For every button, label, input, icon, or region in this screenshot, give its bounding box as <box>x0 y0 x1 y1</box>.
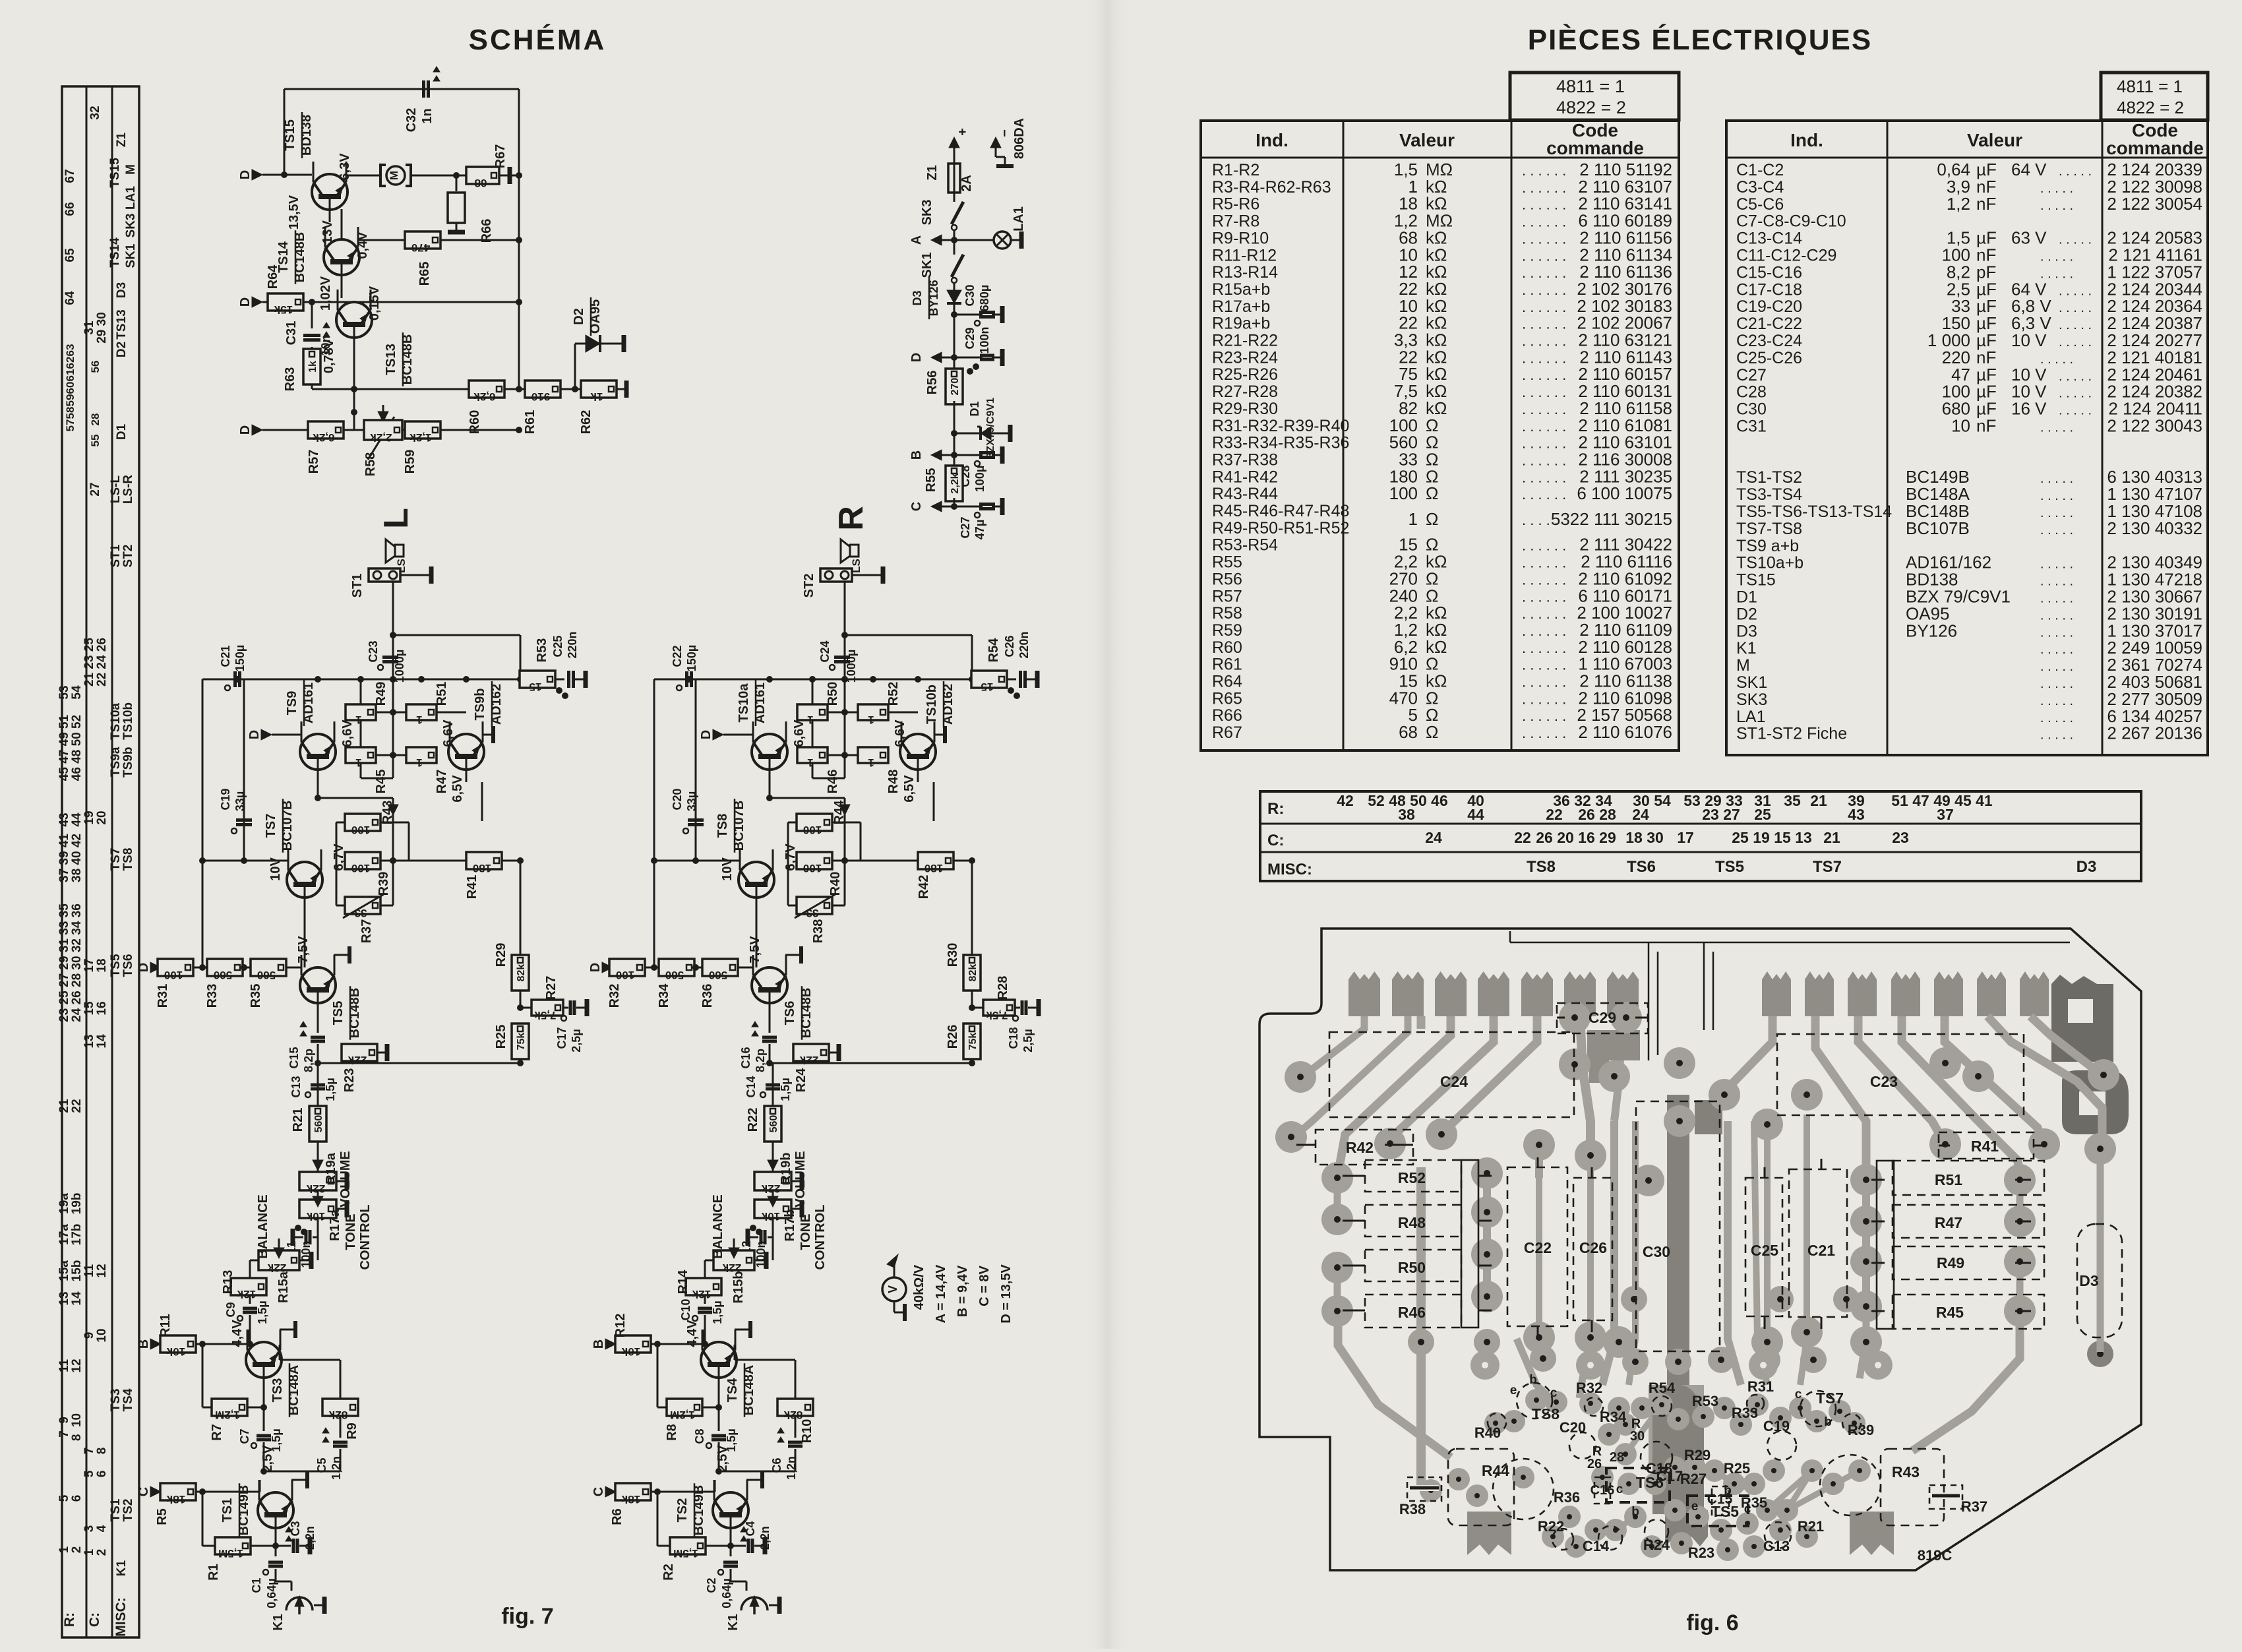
svg-text:R35: R35 <box>249 984 263 1008</box>
svg-text:24: 24 <box>1632 806 1649 823</box>
svg-text:R31: R31 <box>156 984 170 1008</box>
PCB pads lower <box>1420 1341 2113 1561</box>
svg-text:R64: R64 <box>266 264 280 290</box>
svg-text:C:: C: <box>1267 832 1284 849</box>
PCB outline R48 <box>1365 1205 1461 1237</box>
svg-text:TS3: TS3 <box>109 1389 123 1412</box>
svg-text:R38: R38 <box>811 919 826 944</box>
transistor TS15 <box>283 112 348 222</box>
svg-text:R48: R48 <box>1398 1214 1426 1231</box>
svg-text:5322 111 30215: 5322 111 30215 <box>1551 509 1672 529</box>
svg-text:29 30: 29 30 <box>95 312 109 344</box>
svg-text:TS9b TS10b: TS9b TS10b <box>121 702 135 778</box>
resistor R14 <box>676 1270 721 1304</box>
svg-text:BALANCE: BALANCE <box>711 1194 725 1259</box>
svg-text:64 V: 64 V <box>2011 160 2047 179</box>
svg-text:47µ: 47µ <box>973 520 986 539</box>
svg-text:22k: 22k <box>306 1182 325 1195</box>
svg-text:b: b <box>1824 1415 1832 1429</box>
transistor TS2 <box>675 1471 762 1541</box>
capacitor C16 <box>739 1016 777 1072</box>
svg-text:560: 560 <box>768 1115 779 1133</box>
svg-text:14: 14 <box>95 1034 109 1049</box>
svg-text:4822 = 2: 4822 = 2 <box>2117 98 2184 117</box>
svg-text:. . . . .: . . . . . <box>2040 506 2073 520</box>
svg-text:C7: C7 <box>238 1428 251 1444</box>
svg-text:b: b <box>1529 1373 1537 1387</box>
svg-text:. . . . . .: . . . . . . <box>1522 299 1566 315</box>
svg-text:. . . . . .: . . . . . . <box>1522 605 1566 622</box>
potentiometer R19a <box>299 1151 353 1208</box>
svg-text:100n: 100n <box>978 326 991 353</box>
svg-text:180: 180 <box>924 862 943 874</box>
svg-text:R45-R46-R47-R48: R45-R46-R47-R48 <box>1212 502 1349 520</box>
svg-text:26: 26 <box>1587 1457 1602 1471</box>
svg-text:1,2M: 1,2M <box>215 1409 240 1421</box>
svg-text:M: M <box>388 171 400 180</box>
svg-text:commande: commande <box>2106 138 2204 158</box>
motor M <box>346 165 522 186</box>
svg-text:. . . . .: . . . . . <box>2059 369 2092 384</box>
resistor R11 <box>136 1314 250 1358</box>
svg-text:4,4V: 4,4V <box>230 1320 245 1347</box>
svg-text:180: 180 <box>473 862 491 874</box>
svg-text:SK1: SK1 <box>920 253 934 278</box>
svg-text:TS14: TS14 <box>108 237 122 268</box>
PCB mounting pads <box>1470 1351 1893 1380</box>
svg-text:53: 53 <box>57 685 71 699</box>
svg-text:Z1: Z1 <box>115 132 129 147</box>
svg-text:2,5µ: 2,5µ <box>1021 1029 1035 1052</box>
svg-text:Ω: Ω <box>1426 509 1438 529</box>
svg-text:R32: R32 <box>1576 1380 1602 1396</box>
svg-text:BALANCE: BALANCE <box>256 1194 270 1259</box>
svg-text:R22: R22 <box>746 1108 760 1132</box>
svg-text:. . . . .: . . . . . <box>2040 199 2073 213</box>
svg-text:C18: C18 <box>1007 1027 1020 1049</box>
capacitor C25 <box>551 631 586 688</box>
svg-text:. . . . .: . . . . . <box>2040 489 2073 503</box>
svg-text:4811 = 1: 4811 = 1 <box>2117 76 2183 96</box>
svg-text:0,64µ: 0,64µ <box>720 1578 733 1608</box>
svg-text:5: 5 <box>82 1470 96 1477</box>
svg-text:R49: R49 <box>1937 1254 1964 1271</box>
transistor TS3 <box>230 1320 301 1417</box>
svg-text:6,6V: 6,6V <box>792 719 806 747</box>
svg-text:. . . . .: . . . . . <box>2040 557 2073 572</box>
capacitor C2 <box>705 1562 746 1608</box>
svg-text:150µ: 150µ <box>233 645 247 671</box>
svg-text:220n: 220n <box>1017 631 1031 658</box>
PCB bottom tab left <box>1467 1512 1511 1555</box>
wire bottom rail <box>770 1060 975 1066</box>
svg-text:R11-R12: R11-R12 <box>1212 246 1277 264</box>
resistor R8 <box>657 1344 722 1441</box>
svg-text:17a: 17a <box>57 1224 71 1245</box>
svg-text:40kΩ/V: 40kΩ/V <box>912 1264 926 1310</box>
svg-text:6,6V: 6,6V <box>441 719 456 747</box>
svg-text:D: D <box>247 730 262 739</box>
resistor R57 <box>238 421 366 474</box>
svg-text:−: − <box>998 129 1012 137</box>
svg-text:b: b <box>1631 1505 1639 1519</box>
svg-text:. . . . . .: . . . . . . <box>1522 537 1566 554</box>
svg-text:1,5µ: 1,5µ <box>779 1078 792 1101</box>
svg-text:20: 20 <box>95 811 109 824</box>
PCB locator strip frame <box>1260 791 2141 881</box>
resistor R5 <box>136 1483 260 1525</box>
capacitor C9 <box>224 1300 269 1347</box>
svg-text:57: 57 <box>64 419 76 432</box>
svg-text:44: 44 <box>70 812 84 827</box>
svg-text:8,2p: 8,2p <box>754 1049 767 1072</box>
svg-text:e: e <box>1510 1384 1517 1397</box>
svg-text:. . . . .: . . . . . <box>2040 574 2073 589</box>
svg-text:2,5V: 2,5V <box>715 1445 730 1473</box>
svg-text:C26: C26 <box>1579 1239 1607 1256</box>
potentiometer R17b <box>754 1196 828 1270</box>
wire top rail <box>281 89 519 389</box>
svg-text:R51: R51 <box>435 682 449 706</box>
svg-text:R6: R6 <box>610 1508 624 1525</box>
svg-text:2: 2 <box>70 1546 84 1554</box>
svg-text:12k: 12k <box>237 1288 256 1300</box>
svg-text:+: + <box>955 128 970 136</box>
svg-text:R47: R47 <box>435 770 449 794</box>
resistor R48 <box>858 747 918 793</box>
resistor R29 <box>494 861 529 1011</box>
svg-text:. . . . . .: . . . . . . <box>1522 435 1566 452</box>
svg-text:1: 1 <box>57 1546 71 1553</box>
potentiometer R15a <box>250 1194 311 1303</box>
resistor R58 <box>363 420 406 476</box>
parts table resistors frame <box>1201 121 1679 750</box>
svg-text:ST1-ST2 Fiche: ST1-ST2 Fiche <box>1736 725 1847 743</box>
svg-text:TS2: TS2 <box>675 1498 690 1523</box>
svg-text:R61: R61 <box>523 410 537 435</box>
capacitor C31 <box>284 302 332 356</box>
svg-text:C30: C30 <box>1643 1243 1670 1260</box>
svg-text:R34: R34 <box>657 983 671 1008</box>
svg-text:Ind.: Ind. <box>1256 130 1288 150</box>
PCB outline C25 <box>1745 1178 1782 1316</box>
svg-text:R41-R42: R41-R42 <box>1212 468 1278 486</box>
svg-text:R55: R55 <box>924 468 938 493</box>
svg-text:C = 8V: C = 8V <box>977 1265 992 1306</box>
label fig6 <box>1686 1610 1738 1636</box>
svg-text:. . . . . .: . . . . . . <box>1522 623 1566 639</box>
svg-text:D2: D2 <box>115 342 129 357</box>
resistor R37 <box>336 806 409 943</box>
svg-text:43: 43 <box>1848 806 1865 823</box>
svg-text:0,64µ: 0,64µ <box>265 1578 278 1608</box>
resistor R33 <box>199 959 251 1008</box>
svg-text:TS10a+b: TS10a+b <box>1736 554 1803 572</box>
svg-text:R17a+b: R17a+b <box>1212 297 1270 316</box>
svg-text:TS3-TS4: TS3-TS4 <box>1736 485 1802 504</box>
resistor R42 <box>845 769 975 899</box>
svg-text:TS4: TS4 <box>725 1378 740 1403</box>
capacitor C7 <box>238 1390 283 1471</box>
resistor R7 <box>202 1344 267 1441</box>
svg-text:64: 64 <box>63 291 77 305</box>
svg-text:2 122 30054: 2 122 30054 <box>2107 194 2202 214</box>
svg-text:TS13: TS13 <box>384 344 398 375</box>
svg-text:. . . . .: . . . . . <box>2040 523 2073 537</box>
svg-text:D1: D1 <box>1736 588 1757 607</box>
resistor R12 <box>591 1314 705 1358</box>
svg-text:1: 1 <box>868 714 874 726</box>
node C supply <box>909 501 954 512</box>
svg-text:42: 42 <box>1337 792 1354 809</box>
svg-text:2 267 20136: 2 267 20136 <box>2107 723 2202 743</box>
svg-text:R:: R: <box>62 1612 77 1627</box>
svg-text:C26: C26 <box>1003 635 1016 657</box>
svg-text:R24: R24 <box>1643 1537 1670 1553</box>
svg-text:R49-R50-R51-R52: R49-R50-R51-R52 <box>1212 519 1349 537</box>
svg-text:6,7V: 6,7V <box>783 843 798 871</box>
resistor R60 <box>354 381 526 434</box>
capacitor C3 <box>276 1521 317 1554</box>
svg-text:C21: C21 <box>1807 1242 1835 1259</box>
svg-text:19b: 19b <box>70 1193 84 1215</box>
svg-text:. . . . . .: . . . . . . <box>1522 401 1566 417</box>
svg-text:11: 11 <box>57 1359 71 1373</box>
svg-text:270: 270 <box>950 378 961 396</box>
capacitor C20 <box>671 679 704 864</box>
PCB bottom tab right <box>1850 1512 1894 1555</box>
svg-text:ST2: ST2 <box>802 574 816 598</box>
svg-text:R19b: R19b <box>779 1153 793 1185</box>
svg-text:560: 560 <box>709 969 727 981</box>
svg-text:R38: R38 <box>1399 1501 1426 1517</box>
svg-text:TS9b: TS9b <box>473 688 487 721</box>
svg-text:R36: R36 <box>1554 1489 1580 1506</box>
svg-text:. . . . .: . . . . . <box>2040 677 2073 691</box>
resistor R21 <box>291 1106 326 1173</box>
svg-text:R7-R8: R7-R8 <box>1212 212 1259 231</box>
svg-text:B: B <box>909 450 924 460</box>
resistor R59 <box>403 421 522 474</box>
svg-text:37: 37 <box>1937 806 1954 823</box>
svg-text:67: 67 <box>63 169 77 183</box>
svg-text:C13: C13 <box>1763 1538 1790 1554</box>
svg-text:SK3: SK3 <box>1736 690 1767 709</box>
svg-text:D3: D3 <box>115 282 129 298</box>
svg-text:25 19 15 13: 25 19 15 13 <box>1732 829 1812 846</box>
svg-text:1k: 1k <box>590 390 603 403</box>
title SCHEMA <box>469 23 607 56</box>
svg-text:C: C <box>909 502 924 511</box>
resistor R34 <box>651 959 703 1008</box>
svg-text:. . . . .: . . . . . <box>2059 404 2092 418</box>
svg-text:37 39 41: 37 39 41 <box>57 834 71 882</box>
svg-text:R59: R59 <box>403 450 417 474</box>
svg-text:2 110 61076: 2 110 61076 <box>1578 722 1672 742</box>
svg-text:61: 61 <box>64 369 76 382</box>
svg-text:ST2: ST2 <box>121 545 135 568</box>
svg-text:17: 17 <box>1677 829 1694 846</box>
svg-text:1,2: 1,2 <box>1947 194 1970 214</box>
svg-text:3: 3 <box>82 1525 96 1533</box>
PCB corner pad block 1 <box>2051 975 2113 1062</box>
svg-text:b: b <box>1724 1484 1732 1498</box>
svg-text:21 23 25: 21 23 25 <box>82 638 96 687</box>
PCB outline C21 <box>1789 1169 1847 1317</box>
svg-text:R17a: R17a <box>328 1209 342 1241</box>
svg-text:2,2k: 2,2k <box>370 431 392 444</box>
svg-text:R21-R22: R21-R22 <box>1212 332 1278 350</box>
svg-text:R50: R50 <box>1398 1259 1426 1276</box>
potentiometer R17a <box>299 1196 373 1270</box>
resistor R35 <box>241 936 311 1008</box>
svg-text:R9-R10: R9-R10 <box>1212 229 1269 247</box>
svg-text:. . . . . .: . . . . . . <box>1522 690 1566 707</box>
svg-text:100: 100 <box>351 824 370 836</box>
svg-text:R32: R32 <box>607 984 622 1008</box>
svg-text:1,2k: 1,2k <box>409 431 432 444</box>
svg-text:82k: 82k <box>328 1409 348 1421</box>
svg-text:100µ: 100µ <box>973 466 986 492</box>
header left table <box>1256 120 1644 158</box>
svg-text:15: 15 <box>530 681 542 693</box>
svg-text:8 10: 8 10 <box>70 1413 84 1441</box>
svg-text:C3: C3 <box>289 1521 302 1536</box>
svg-text:1,5µ: 1,5µ <box>324 1078 337 1101</box>
locator table numbers <box>57 106 138 1636</box>
svg-text:21: 21 <box>1810 792 1827 809</box>
resistor R65 <box>358 231 522 286</box>
PCB bar R52-R46 <box>1461 1160 1478 1328</box>
svg-text:TONE: TONE <box>799 1213 813 1250</box>
svg-text:. . . . . .: . . . . . . <box>1522 179 1566 196</box>
svg-text:1,2M: 1,2M <box>670 1409 695 1421</box>
resistor R61 <box>523 381 582 434</box>
connector K1 TS2 <box>726 1596 779 1631</box>
svg-text:R31-R32-R39-R40: R31-R32-R39-R40 <box>1212 417 1349 435</box>
svg-text:M: M <box>1736 656 1750 675</box>
svg-text:6: 6 <box>95 1471 109 1478</box>
resistor R10 <box>735 1345 814 1443</box>
svg-text:12: 12 <box>95 1264 109 1277</box>
svg-text:R5-R6: R5-R6 <box>1212 195 1259 214</box>
svg-text:Valeur: Valeur <box>1399 130 1455 150</box>
svg-text:. . . . . .: . . . . . . <box>1522 452 1566 468</box>
svg-text:. . . . . .: . . . . . . <box>1522 350 1566 366</box>
transistor TS10a <box>737 680 806 782</box>
svg-text:. . . . .: . . . . . <box>2059 284 2092 298</box>
svg-text:C23-C24: C23-C24 <box>1736 332 1802 350</box>
svg-text:R: R <box>832 506 870 531</box>
svg-text:fig. 7: fig. 7 <box>501 1604 553 1629</box>
svg-text:R48: R48 <box>886 770 901 794</box>
svg-text:R58: R58 <box>363 452 378 477</box>
svg-text:R29: R29 <box>1684 1447 1711 1463</box>
transistor TS13 <box>336 290 415 386</box>
svg-text:. . . . . .: . . . . . . <box>1522 708 1566 724</box>
svg-text:R45: R45 <box>1936 1304 1964 1321</box>
svg-text:C19: C19 <box>219 788 232 810</box>
svg-text:C27: C27 <box>1736 366 1767 384</box>
capacitor C26 <box>1003 631 1037 688</box>
svg-text:TS5: TS5 <box>331 1001 346 1025</box>
svg-text:C17: C17 <box>555 1027 568 1049</box>
PCB copper traces <box>1294 931 2102 1530</box>
svg-text:K1: K1 <box>726 1614 741 1631</box>
svg-text:C1: C1 <box>250 1577 263 1593</box>
wire TS14 emitter <box>341 209 343 240</box>
svg-text:VOLUME: VOLUME <box>338 1151 353 1208</box>
svg-text:D = 13,5V: D = 13,5V <box>999 1264 1014 1324</box>
PCB outline C26 <box>1573 1178 1612 1320</box>
svg-text:c: c <box>1795 1388 1802 1401</box>
resistor R25 <box>494 1024 529 1063</box>
svg-text:43: 43 <box>57 812 71 826</box>
svg-text:. . . . . .: . . . . . . <box>1522 282 1566 298</box>
svg-text:fig. 6: fig. 6 <box>1686 1610 1738 1636</box>
svg-text:2,2n: 2,2n <box>758 1526 772 1550</box>
svg-text:1,5µ: 1,5µ <box>256 1300 269 1324</box>
svg-text:R19a+b: R19a+b <box>1212 315 1270 333</box>
svg-text:44: 44 <box>1467 806 1484 823</box>
svg-text:1k: 1k <box>307 361 318 373</box>
svg-text:L: L <box>377 508 415 529</box>
connector K1 TS1 <box>271 1596 324 1631</box>
svg-text:21: 21 <box>1823 829 1840 846</box>
svg-text:6,5V: 6,5V <box>450 775 465 803</box>
svg-text:56: 56 <box>89 361 102 373</box>
svg-text:13,5V: 13,5V <box>287 195 301 229</box>
svg-text:59: 59 <box>64 394 76 407</box>
voltmeter <box>882 1254 906 1321</box>
svg-text:TS6: TS6 <box>121 954 135 977</box>
svg-text:TS15: TS15 <box>283 119 297 151</box>
svg-text:C10: C10 <box>679 1299 692 1320</box>
svg-text:LA1: LA1 <box>1012 206 1026 231</box>
svg-text:D3: D3 <box>2079 1272 2098 1289</box>
wire driver node <box>766 769 850 815</box>
PCB outline R49 <box>1893 1246 2044 1279</box>
transistor TS10b <box>893 681 955 803</box>
resistor R64 <box>238 264 522 316</box>
svg-text:150µ: 150µ <box>685 645 698 671</box>
svg-text:C30: C30 <box>1736 400 1767 419</box>
svg-text:R33-R34-R35-R36: R33-R34-R35-R36 <box>1212 434 1349 452</box>
svg-text:TS9: TS9 <box>285 691 299 716</box>
svg-text:MISC:: MISC: <box>1267 861 1312 878</box>
svg-text:. . . . . .: . . . . . . <box>1522 333 1566 350</box>
svg-text:LA1: LA1 <box>124 186 138 210</box>
svg-text:C23: C23 <box>367 640 380 662</box>
svg-text:19a: 19a <box>57 1193 71 1214</box>
label meter note <box>912 1264 1014 1324</box>
svg-text:18: 18 <box>95 958 109 972</box>
svg-text:. . . . . .: . . . . . . <box>1522 230 1566 247</box>
svg-text:5: 5 <box>57 1494 71 1502</box>
svg-text:R15a+b: R15a+b <box>1212 280 1270 299</box>
svg-text:C3-C4: C3-C4 <box>1736 178 1784 197</box>
svg-text:. . . . . .: . . . . . . <box>1522 214 1566 230</box>
svg-text:6,2k: 6,2k <box>473 390 496 403</box>
svg-text:Ω: Ω <box>1426 483 1438 503</box>
svg-text:ST1: ST1 <box>109 544 123 567</box>
svg-text:1,5M: 1,5M <box>673 1547 698 1560</box>
svg-text:4811 = 1: 4811 = 1 <box>1556 76 1625 96</box>
svg-text:C29: C29 <box>1589 1009 1616 1026</box>
svg-text:75k: 75k <box>967 1033 979 1051</box>
svg-text:100: 100 <box>164 969 183 981</box>
resistor R39 <box>284 852 393 896</box>
